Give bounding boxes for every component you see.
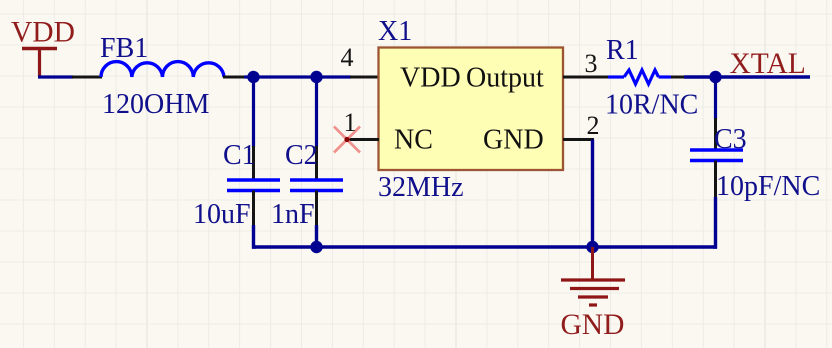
svg-text:FB1: FB1 [100,33,148,64]
wire C1 to bottom rail [254,225,257,247]
pin 1 with no-connect X [334,127,379,153]
svg-text:R1: R1 [606,35,639,66]
svg-text:C3: C3 [714,124,747,155]
junction at C2 bottom [310,241,322,253]
svg-text:GND: GND [561,309,625,341]
wire pin 2 to GND [591,140,594,249]
svg-text:Output: Output [466,63,544,94]
ground symbol GND [561,247,625,305]
svg-text:X1: X1 [378,16,412,47]
component body X1 [379,48,564,171]
junction at C1 top [247,71,259,83]
svg-text:NC: NC [394,125,433,156]
ferrite bead FB1 [72,62,245,77]
capacitor C1 [227,146,280,226]
wire VDD to FB1 [38,75,73,78]
wire C3 to bottom rail [713,197,716,247]
svg-text:4: 4 [341,43,354,72]
svg-text:VDD: VDD [11,17,75,49]
wire C1 top [252,77,255,147]
svg-text:10pF/NC: 10pF/NC [716,171,820,202]
junction at C3 top [709,71,721,83]
svg-text:1: 1 [344,108,357,137]
wire C2 to bottom rail [315,225,318,248]
svg-text:C1: C1 [223,140,256,171]
svg-text:10uF: 10uF [193,199,251,230]
pin 4 [350,76,379,79]
bottom rail wire [252,245,717,248]
junction at GND [586,241,598,253]
svg-text:3: 3 [585,49,598,78]
capacitor C2 [290,146,343,226]
pin 3 [563,76,609,79]
wire R1 to XTAL [684,75,810,78]
pin 2 [563,138,594,141]
svg-text:XTAL: XTAL [730,48,806,80]
svg-text:120OHM: 120OHM [102,89,209,120]
svg-text:10R/NC: 10R/NC [605,90,698,121]
svg-text:GND: GND [483,125,544,156]
svg-text:2: 2 [587,111,600,140]
svg-text:VDD: VDD [400,63,461,94]
resistor R1 [608,70,685,84]
svg-text:1nF: 1nF [271,199,315,230]
svg-text:32MHz: 32MHz [378,172,464,203]
power port VDD [11,17,75,77]
wire C2 top [315,77,318,147]
wire FB1 to pin 4 [244,75,351,78]
capacitor C3 [690,118,743,198]
junction at C2 top [310,71,322,83]
svg-text:C2: C2 [285,140,318,171]
wire junction to C3 [714,77,717,119]
